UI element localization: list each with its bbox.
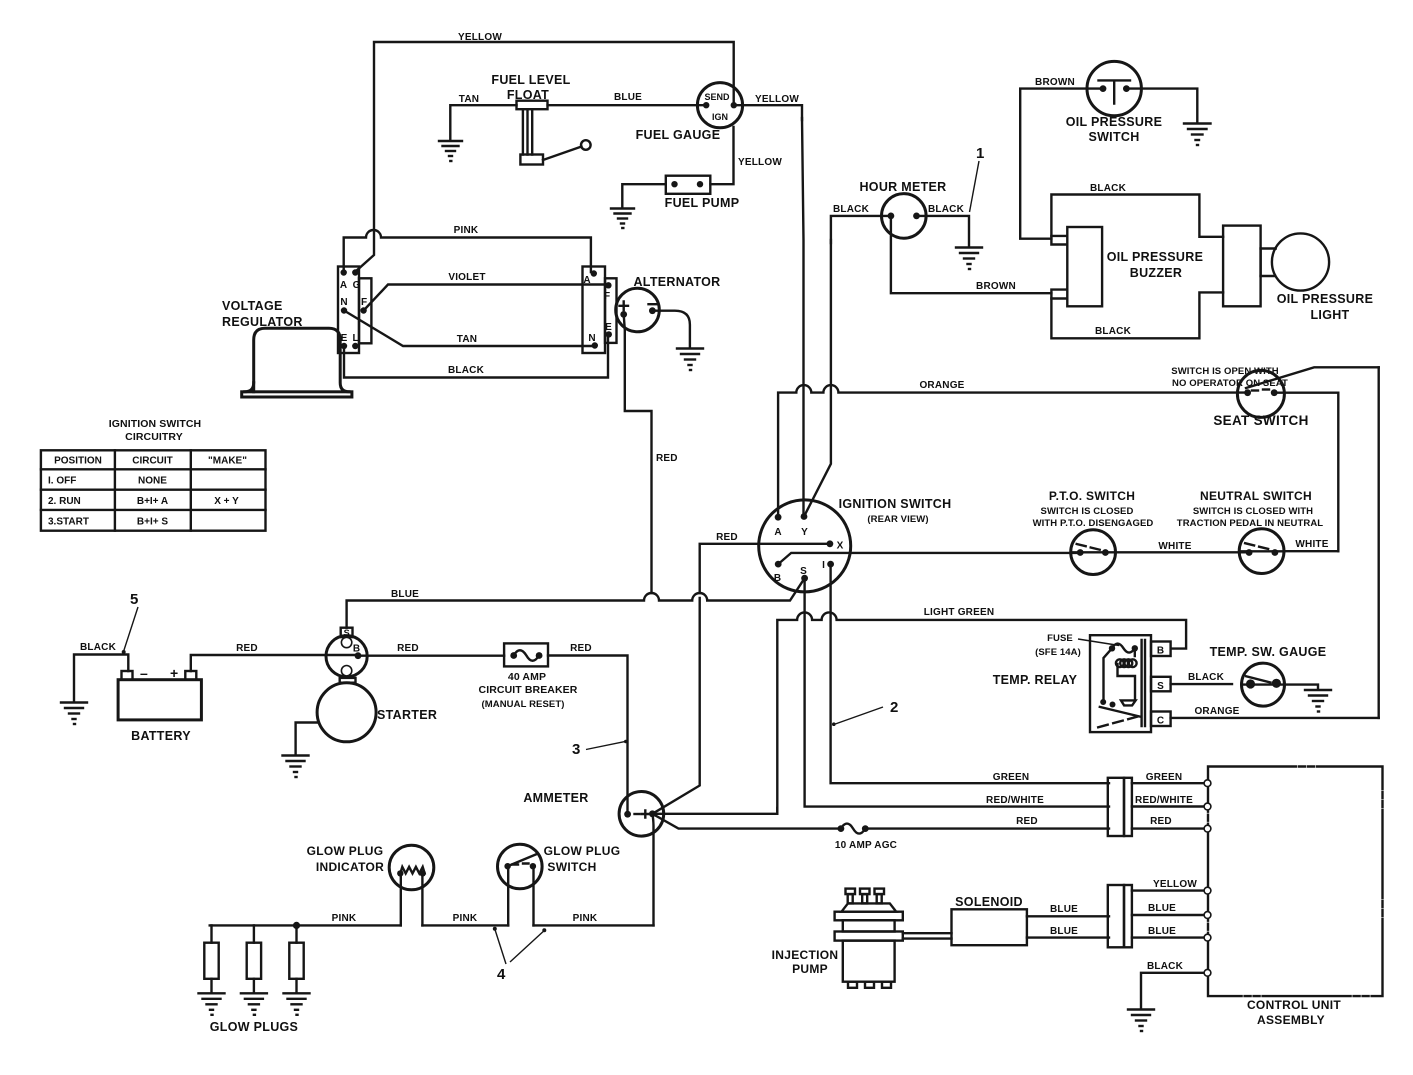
wire WHITE (neutral to seat junction) xyxy=(1284,550,1338,552)
svg-text:RED: RED xyxy=(397,643,419,654)
battery xyxy=(118,680,201,720)
pin F (regulator) xyxy=(360,307,366,313)
alternator connector block xyxy=(583,267,606,354)
svg-text:YELLOW: YELLOW xyxy=(1153,879,1197,890)
svg-text:SEAT SWITCH: SEAT SWITCH xyxy=(1213,413,1308,428)
terminal S (ignition) xyxy=(801,575,808,582)
svg-text:BLUE: BLUE xyxy=(1050,926,1078,937)
svg-text:(REAR VIEW): (REAR VIEW) xyxy=(867,514,928,525)
svg-text:(SFE 14A): (SFE 14A) xyxy=(1035,647,1081,658)
svg-text:PINK: PINK xyxy=(573,913,598,924)
svg-text:WHITE: WHITE xyxy=(1158,541,1191,552)
wire alternator output to ground xyxy=(652,311,690,347)
terminal I (ignition) xyxy=(827,561,834,568)
svg-text:RED: RED xyxy=(716,532,738,543)
svg-text:BLACK: BLACK xyxy=(1147,961,1184,972)
ground (temp gauge) xyxy=(1305,690,1331,712)
svg-text:PUMP: PUMP xyxy=(792,962,828,976)
svg-text:B: B xyxy=(774,573,781,584)
leader and label 2 xyxy=(834,707,884,725)
oil pressure light socket xyxy=(1223,226,1261,307)
svg-text:–: – xyxy=(140,665,148,681)
ground (oil pressure switch) xyxy=(1184,124,1211,146)
pin N (alternator connector) xyxy=(592,342,598,348)
temp relay armature bar xyxy=(1142,640,1145,726)
wire RED (ignition X to ammeter) xyxy=(700,544,830,593)
wire hour meter left lead (BLACK down to ignition) xyxy=(831,216,891,243)
svg-text:X: X xyxy=(837,541,844,552)
seat switch lever to right rail xyxy=(1246,367,1379,388)
control unit terminals (open circles) xyxy=(1204,780,1211,787)
svg-text:S: S xyxy=(1157,681,1164,692)
temp relay fuse xyxy=(1109,645,1115,651)
alternator xyxy=(616,288,660,332)
svg-text:POSITION: POSITION xyxy=(54,456,102,467)
ground (starter) xyxy=(283,756,309,778)
svg-text:A: A xyxy=(340,280,347,291)
svg-text:P.T.O. SWITCH: P.T.O. SWITCH xyxy=(1049,489,1135,503)
svg-text:BLUE: BLUE xyxy=(1148,903,1176,914)
pin L (regulator) xyxy=(352,343,358,349)
wire BLUE (solenoid lower to connector) xyxy=(1027,936,1109,938)
wire BLACK (temp relay S to temp gauge) xyxy=(1171,683,1232,685)
svg-text:TEMP. RELAY: TEMP. RELAY xyxy=(993,673,1078,687)
pin A (regulator) xyxy=(341,269,347,275)
svg-text:BATTERY: BATTERY xyxy=(131,729,191,743)
svg-text:TRACTION PEDAL IN NEUTRAL: TRACTION PEDAL IN NEUTRAL xyxy=(1177,518,1324,529)
svg-text:SWITCH IS CLOSED: SWITCH IS CLOSED xyxy=(1041,506,1134,517)
terminal C (temp relay) xyxy=(1151,712,1171,727)
wire ignition I down to GREEN row xyxy=(831,566,1109,783)
wire ORANGE (temp relay C to right rail) xyxy=(1171,717,1379,719)
svg-text:NEUTRAL SWITCH: NEUTRAL SWITCH xyxy=(1200,489,1312,503)
wire BLACK (control unit to ground) xyxy=(1141,973,1205,1008)
ground (glow plug 3) xyxy=(284,993,310,1015)
svg-text:A: A xyxy=(774,527,781,538)
svg-text:X + Y: X + Y xyxy=(214,496,239,507)
oil pressure buzzer body xyxy=(1067,227,1102,306)
wire TAN (regulator N to alternator N) xyxy=(344,311,592,347)
svg-text:BLACK: BLACK xyxy=(1188,672,1225,683)
svg-text:OIL PRESSURE: OIL PRESSURE xyxy=(1107,250,1203,264)
circuit breaker 40 AMP xyxy=(504,643,548,666)
svg-text:BROWN: BROWN xyxy=(1035,77,1075,88)
svg-text:CIRCUITRY: CIRCUITRY xyxy=(125,431,183,443)
glow plug 3 xyxy=(295,925,297,942)
svg-text:N: N xyxy=(340,297,347,308)
svg-text:S: S xyxy=(800,566,807,577)
ignition switch xyxy=(759,500,851,592)
hour meter xyxy=(882,194,927,239)
ignition switch circuitry table xyxy=(41,450,266,530)
temp relay internal wiring xyxy=(1104,648,1135,699)
wire RED (starter B to circuit breaker) xyxy=(358,655,504,657)
svg-text:I. OFF: I. OFF xyxy=(48,476,76,487)
wire hour meter lead down to Y (diagonal) xyxy=(804,240,831,517)
wire WHITE (ignition B to PTO and neutral switches) xyxy=(778,553,1077,564)
svg-text:AMMETER: AMMETER xyxy=(523,791,588,805)
oil pressure switch xyxy=(1087,61,1141,115)
terminal B (ignition) xyxy=(775,561,782,568)
alternator + terminal xyxy=(620,302,629,311)
svg-text:RED: RED xyxy=(236,643,258,654)
svg-text:LIGHT: LIGHT xyxy=(1311,308,1350,322)
glow plug switch xyxy=(498,844,543,889)
leaders and label 4 xyxy=(495,929,506,964)
svg-text:TEMP. SW. GAUGE: TEMP. SW. GAUGE xyxy=(1210,645,1327,659)
wire ORANGE (ignition A to seat switch) with hops xyxy=(778,385,1244,514)
fuse 10 AMP AGC xyxy=(838,825,845,832)
svg-text:BLUE: BLUE xyxy=(391,589,419,600)
svg-text:NONE: NONE xyxy=(138,476,167,487)
svg-text:BLACK: BLACK xyxy=(928,204,965,215)
wire LIGHT GREEN (ammeter node to temp relay B) with hops xyxy=(777,612,1186,811)
svg-text:STARTER: STARTER xyxy=(377,708,437,722)
svg-text:2: 2 xyxy=(890,699,898,716)
svg-text:BROWN: BROWN xyxy=(976,281,1016,292)
svg-text:BLUE: BLUE xyxy=(1050,904,1078,915)
svg-text:N: N xyxy=(588,333,595,344)
pin N (regulator) xyxy=(341,307,347,313)
wire WHITE (PTO to neutral) xyxy=(1116,551,1247,553)
svg-text:+: + xyxy=(170,665,178,681)
ground (fuel level float) xyxy=(439,141,462,161)
terminal X (ignition) xyxy=(827,540,834,547)
wire ammeter + up-diagonal to ignition X red xyxy=(652,598,699,814)
wire YELLOW top loop (fuel gauge IGN to regulator G) xyxy=(356,42,734,272)
wire right rail (seat lever down to orange C wire) xyxy=(1377,367,1379,718)
pin E (alternator connector) xyxy=(606,331,612,337)
pin A (alternator connector) xyxy=(591,270,597,276)
svg-text:IGNITION SWITCH: IGNITION SWITCH xyxy=(839,497,952,511)
svg-text:OIL PRESSURE: OIL PRESSURE xyxy=(1277,292,1373,306)
wire hour meter right lead to ground xyxy=(917,216,970,246)
svg-text:E: E xyxy=(605,322,612,333)
leader and label 3 xyxy=(586,741,626,749)
glow plug 2 xyxy=(253,925,255,942)
svg-text:RED/WHITE: RED/WHITE xyxy=(986,795,1044,806)
svg-text:BLACK: BLACK xyxy=(448,365,485,376)
svg-text:IGN: IGN xyxy=(712,112,728,122)
svg-text:B+I+ S: B+I+ S xyxy=(137,516,168,527)
ground (battery) xyxy=(61,703,87,725)
fuel gauge xyxy=(697,83,742,128)
svg-text:BLUE: BLUE xyxy=(1148,926,1176,937)
pin E (regulator) xyxy=(341,343,347,349)
svg-text:BLACK: BLACK xyxy=(1090,183,1127,194)
svg-text:LIGHT GREEN: LIGHT GREEN xyxy=(924,607,995,618)
svg-text:5: 5 xyxy=(130,591,138,608)
svg-text:B+I+ A: B+I+ A xyxy=(137,496,168,507)
fuel level float body xyxy=(517,101,548,110)
svg-text:L: L xyxy=(352,333,358,344)
wire ignition S down to RED/WHITE row xyxy=(805,580,1109,807)
wire VIOLET (regulator F to alternator F) xyxy=(364,285,607,311)
wire BLUE (float to fuel gauge SEND) xyxy=(548,104,706,106)
PTO switch xyxy=(1071,530,1116,575)
svg-text:WITH P.T.O. DISENGAGED: WITH P.T.O. DISENGAGED xyxy=(1033,518,1154,529)
ammeter xyxy=(619,792,664,837)
injection pump xyxy=(835,889,903,988)
svg-text:YELLOW: YELLOW xyxy=(755,94,799,105)
svg-text:PINK: PINK xyxy=(454,225,479,236)
svg-text:SWITCH: SWITCH xyxy=(547,860,596,874)
svg-text:F: F xyxy=(604,291,610,302)
svg-text:G: G xyxy=(353,280,361,291)
leader and label 1 xyxy=(970,161,980,212)
svg-text:RED: RED xyxy=(570,643,592,654)
svg-text:2. RUN: 2. RUN xyxy=(48,496,81,507)
svg-text:RED: RED xyxy=(1150,816,1172,827)
svg-text:ORANGE: ORANGE xyxy=(919,380,964,391)
pin F (alternator connector) xyxy=(605,282,611,288)
svg-text:TAN: TAN xyxy=(459,94,479,105)
svg-text:RED/WHITE: RED/WHITE xyxy=(1135,795,1193,806)
svg-text:CIRCUIT: CIRCUIT xyxy=(132,456,173,467)
temp relay box xyxy=(1090,635,1151,732)
starter motor xyxy=(340,678,356,683)
wire BLUE (starter S to ignition S, diagonal end) xyxy=(347,578,805,628)
seat switch xyxy=(1237,370,1284,417)
float lever and ball xyxy=(543,147,582,161)
wire temp gauge to ground xyxy=(1285,685,1319,689)
svg-text:3.START: 3.START xyxy=(48,516,89,527)
ground (glow plug 1) xyxy=(199,993,225,1015)
wire YELLOW (gauge to ignition Y, upper corner) xyxy=(734,105,802,120)
svg-text:BUZZER: BUZZER xyxy=(1130,266,1183,280)
svg-text:FUEL LEVEL: FUEL LEVEL xyxy=(491,73,570,87)
svg-text:IGNITION SWITCH: IGNITION SWITCH xyxy=(109,418,202,430)
wire RED (battery + to starter B) xyxy=(191,655,358,671)
ground (glow plug 2) xyxy=(241,993,267,1015)
glow plug switch legs xyxy=(508,868,533,925)
wire PINK (indicator to switch) xyxy=(422,924,508,926)
svg-text:B: B xyxy=(1157,646,1164,657)
svg-text:YELLOW: YELLOW xyxy=(458,32,502,43)
wire RED (breaker to ammeter) xyxy=(548,656,628,814)
wire BLUE (solenoid upper to connector) xyxy=(1027,915,1109,917)
wire YELLOW (fuel gauge down to Y) xyxy=(802,118,804,513)
svg-text:3: 3 xyxy=(572,741,580,758)
wire YELLOW (connector to control unit) xyxy=(1132,889,1205,891)
svg-text:ORANGE: ORANGE xyxy=(1194,706,1239,717)
connector (upper, to control unit) xyxy=(1108,778,1124,836)
svg-text:ALTERNATOR: ALTERNATOR xyxy=(633,275,720,289)
pin G (regulator) xyxy=(352,269,358,275)
wire PINK (switch to ammeter node) xyxy=(534,924,654,926)
svg-text:ASSEMBLY: ASSEMBLY xyxy=(1257,1013,1325,1027)
svg-text:HOUR METER: HOUR METER xyxy=(859,180,946,194)
svg-text:GREEN: GREEN xyxy=(1146,772,1183,783)
svg-text:OIL PRESSURE: OIL PRESSURE xyxy=(1066,115,1162,129)
fuel pump xyxy=(666,176,711,194)
control unit assembly box (dash-dot border) xyxy=(1208,767,1383,997)
glow plug indicator xyxy=(389,845,434,890)
regulator connector block xyxy=(338,267,359,354)
svg-text:GLOW PLUG: GLOW PLUG xyxy=(307,844,384,858)
ground (control unit black) xyxy=(1128,1010,1154,1032)
svg-text:BLACK: BLACK xyxy=(833,204,870,215)
terminal S (temp relay) xyxy=(1151,677,1171,692)
wire RED/WHITE (connector to control unit) xyxy=(1132,805,1205,807)
wire BLUE (connector to control unit, upper) xyxy=(1132,914,1205,916)
terminal A (ignition) xyxy=(775,514,782,521)
ground (alternator) xyxy=(677,349,703,371)
oil pressure buzzer outer loop bottom (BLACK) xyxy=(1051,292,1223,338)
wire GREEN (connector to control unit) xyxy=(1132,782,1205,784)
svg-text:FUEL GAUGE: FUEL GAUGE xyxy=(636,128,721,142)
wire fuel pump to ground xyxy=(622,184,666,207)
svg-text:TAN: TAN xyxy=(457,334,477,345)
oil pressure light bulb xyxy=(1261,249,1276,277)
pipe injection pump to solenoid xyxy=(903,933,952,938)
wire RED (connector to control unit) xyxy=(1132,827,1205,829)
temp relay coil xyxy=(1116,659,1137,667)
svg-text:Y: Y xyxy=(801,527,808,538)
svg-text:GLOW PLUG: GLOW PLUG xyxy=(544,844,621,858)
svg-text:4: 4 xyxy=(497,966,506,983)
wire PINK bus (glow plugs to indicator) xyxy=(210,924,401,926)
svg-text:1: 1 xyxy=(976,145,984,162)
solenoid xyxy=(952,909,1027,945)
svg-text:PINK: PINK xyxy=(453,913,478,924)
terminal Y (ignition) xyxy=(801,513,808,520)
svg-text:VOLTAGE: VOLTAGE xyxy=(222,299,283,313)
svg-text:C: C xyxy=(1157,716,1164,727)
svg-text:GLOW PLUGS: GLOW PLUGS xyxy=(210,1020,298,1034)
neutral switch xyxy=(1239,529,1284,574)
connector (lower, to control unit) xyxy=(1108,885,1124,947)
svg-text:FUSE: FUSE xyxy=(1047,633,1073,644)
svg-text:SWITCH: SWITCH xyxy=(1088,130,1139,144)
wire ammeter + to light green riser xyxy=(652,808,777,814)
wire PINK (regulator A to alternator connector A) with hop over yellow xyxy=(344,230,591,272)
wire BLUE (connector to control unit, lower) xyxy=(1132,936,1205,938)
svg-text:10 AMP AGC: 10 AMP AGC xyxy=(835,840,897,851)
svg-text:FUEL PUMP: FUEL PUMP xyxy=(665,196,740,210)
svg-text:BLACK: BLACK xyxy=(80,642,117,653)
svg-text:BLACK: BLACK xyxy=(1095,326,1132,337)
svg-text:WHITE: WHITE xyxy=(1295,539,1328,550)
terminal B (temp relay) xyxy=(1151,642,1171,657)
junction dot on pink bus xyxy=(293,922,300,929)
svg-text:CONTROL UNIT: CONTROL UNIT xyxy=(1247,998,1341,1012)
svg-text:"MAKE": "MAKE" xyxy=(208,456,247,467)
wire oil pressure switch to ground xyxy=(1126,89,1197,122)
wire RED (ammeter to 10A fuse to control unit) xyxy=(652,814,1109,829)
svg-text:(MANUAL RESET): (MANUAL RESET) xyxy=(481,699,564,710)
wire YELLOW (gauge down to fuel pump) xyxy=(711,127,734,184)
ground (fuel pump) xyxy=(611,209,634,229)
wire RED (alternator + down to ammeter) with jog xyxy=(624,314,652,593)
wire BROWN (hour meter to buzzer) xyxy=(891,218,1052,293)
svg-text:RED: RED xyxy=(656,453,678,464)
svg-text:VIOLET: VIOLET xyxy=(448,272,485,283)
svg-text:INJECTION: INJECTION xyxy=(772,948,839,962)
svg-text:S: S xyxy=(344,628,350,638)
wire ammeter + down to glow plug pink bus xyxy=(652,814,653,926)
ground (hour meter) xyxy=(956,248,982,270)
oil pressure buzzer outer loop top (BLACK) xyxy=(1051,195,1223,237)
svg-text:E: E xyxy=(341,333,348,344)
svg-text:BLUE: BLUE xyxy=(614,92,642,103)
wire seat switch to white junction xyxy=(1274,393,1338,552)
svg-text:SWITCH IS CLOSED WITH: SWITCH IS CLOSED WITH xyxy=(1193,506,1313,517)
svg-text:RED: RED xyxy=(1016,816,1038,827)
svg-text:CIRCUIT BREAKER: CIRCUIT BREAKER xyxy=(479,684,578,696)
svg-text:PINK: PINK xyxy=(332,913,357,924)
wire starter to ground xyxy=(296,723,318,755)
svg-text:YELLOW: YELLOW xyxy=(738,157,782,168)
glow plug indicator legs xyxy=(401,875,423,925)
svg-text:INDICATOR: INDICATOR xyxy=(316,860,384,874)
wire BROWN (oil pressure switch to buzzer) xyxy=(1020,89,1103,239)
svg-text:GREEN: GREEN xyxy=(993,772,1030,783)
glow plug 1 xyxy=(210,925,212,942)
svg-text:I: I xyxy=(822,560,825,571)
temp switch gauge xyxy=(1242,663,1285,706)
svg-text:SEND: SEND xyxy=(704,92,730,102)
svg-text:SOLENOID: SOLENOID xyxy=(955,895,1023,909)
voltage regulator body (bell) xyxy=(254,328,349,392)
starter solenoid xyxy=(326,636,367,677)
svg-text:40 AMP: 40 AMP xyxy=(508,671,546,683)
wire TAN (float to ground) xyxy=(450,105,516,140)
wire battery negative to ground xyxy=(74,655,128,702)
wire BLACK (regulator E to alternator E) xyxy=(344,337,608,378)
svg-text:A: A xyxy=(583,275,590,286)
alternator output terminal xyxy=(649,303,658,305)
